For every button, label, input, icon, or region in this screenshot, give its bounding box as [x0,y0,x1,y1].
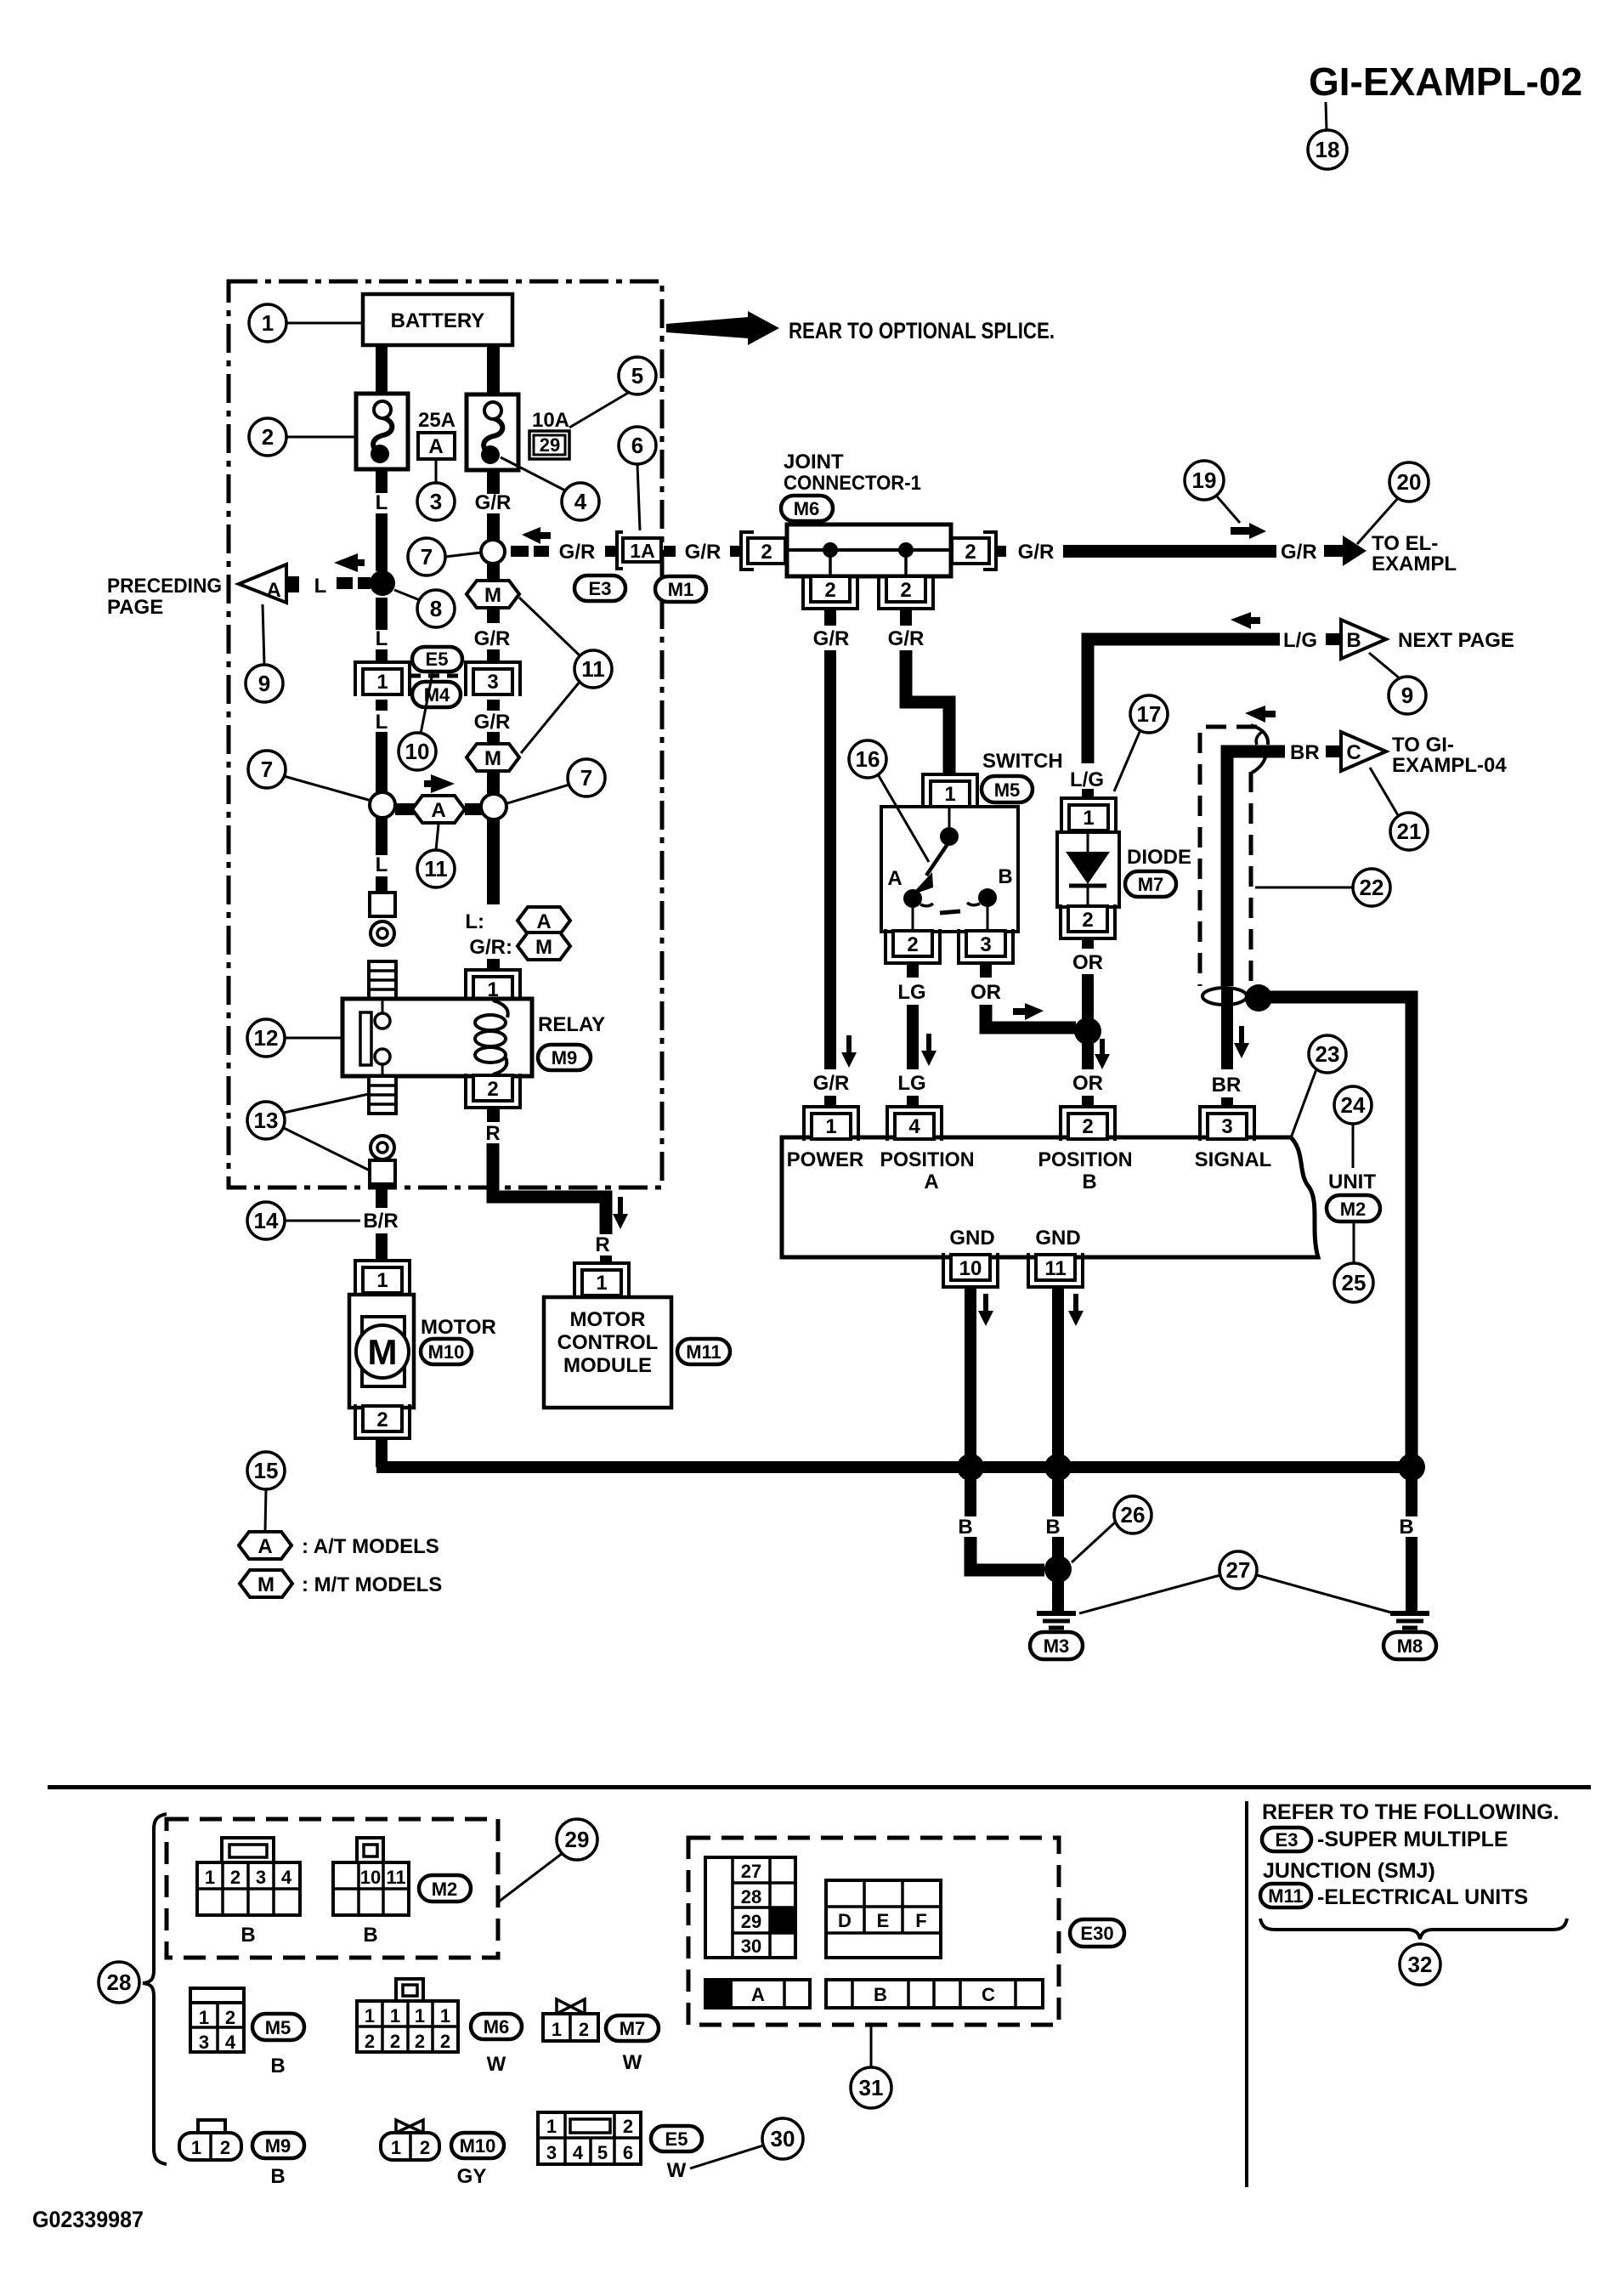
svg-text:27: 27 [1226,1557,1251,1583]
joint connector bottom pin 2 right [879,575,933,609]
svg-text:A: A [431,799,445,822]
callout line 22 [1255,887,1353,889]
E30 grid DEF [826,1880,941,1958]
wire BR to unit pin 3 [1221,1097,1233,1107]
bus node middle [1044,1454,1072,1481]
svg-text:4: 4 [574,489,587,514]
dashed group box M2 connectors [167,1819,498,1958]
wire G/R [487,564,500,583]
switch common post [948,808,951,830]
svg-text:1: 1 [440,2005,450,2026]
svg-text:EXAMPL: EXAMPL [1372,553,1457,575]
callout line 26 [1072,1522,1115,1562]
switch contact drop lines [912,908,914,932]
oval M5 [982,776,1033,802]
callout line 9 right [1369,653,1400,678]
separator rule [48,1785,1591,1789]
relay contact bar [360,1012,371,1065]
hexagon M legend [240,1570,292,1597]
relay contact points [382,1000,384,1014]
circled 20 [1389,462,1429,502]
svg-text:OR: OR [970,981,1001,1004]
svg-text:E30: E30 [1080,1923,1113,1944]
svg-text:5: 5 [597,2142,608,2163]
connector face M5 grid [190,2003,244,2052]
svg-text:E5: E5 [426,649,449,670]
dashed option box 22 right with hop [1249,772,1253,986]
circled 31 [851,2067,891,2108]
circled 16 [849,740,886,778]
circled 23 [1309,1035,1346,1073]
switch pin connector 2 [886,929,940,963]
svg-text:E: E [877,1910,890,1931]
svg-text:2: 2 [487,1078,498,1101]
circled 9 [246,665,283,702]
svg-text:B: B [958,1516,972,1539]
svg-text:JOINT: JOINT [784,451,844,473]
svg-text:25A: 25A [418,409,456,432]
connector face M7 grid [543,2014,598,2041]
splice dot ground [1044,1556,1072,1583]
wire B elbow to splice [970,1537,1044,1570]
callout line 12 [285,1037,342,1040]
svg-text:GND: GND [1035,1227,1080,1250]
svg-text:B: B [1346,629,1361,652]
oval M11 refer [1260,1884,1311,1907]
arrow left above BR wire [1245,706,1276,723]
svg-text:B: B [270,2165,285,2188]
circled 3 [417,483,455,520]
terminal box on L wire [370,893,395,916]
callout line 18 [1326,102,1327,130]
bottom bus wire [376,1461,1417,1473]
svg-text:G02339987: G02339987 [32,2207,144,2232]
wire B below pin 11 [1052,1287,1064,1467]
callout line 29 [499,1853,563,1902]
svg-text:A: A [257,1535,272,1558]
svg-text:CONTROL: CONTROL [557,1331,659,1354]
svg-text:1: 1 [365,2005,375,2026]
callout lines 11a [519,598,580,656]
oval M9 [538,1045,591,1070]
wire B/R [376,1233,388,1261]
oval M8 [1384,1632,1436,1659]
svg-text:-SUPER MULTIPLE: -SUPER MULTIPLE [1317,1828,1508,1851]
svg-text:10: 10 [405,739,430,764]
joint bus node left [823,542,838,558]
callout line 24 [1352,1124,1355,1168]
callout line 21 [1370,768,1398,815]
svg-text:20: 20 [1397,469,1422,495]
svg-text:NEXT PAGE: NEXT PAGE [1398,629,1514,652]
circled 28 [99,1962,139,2003]
svg-text:G/R: G/R [813,627,850,650]
joint connector pin 2 left [741,532,754,570]
svg-text:15: 15 [254,1458,279,1483]
wire G/R [487,608,500,623]
wire splice to right riser [1265,997,1412,1467]
arrow down on OR wire [1095,1039,1110,1069]
hexagon A (A/T models) [412,796,465,823]
fat arrow to EL-EXAMPL [1324,536,1367,566]
svg-text:M3: M3 [1044,1635,1070,1657]
svg-text:2: 2 [579,2019,589,2040]
callout line 6 [637,464,640,530]
wire G/R joint pin down left [824,607,836,626]
svg-text:2: 2 [907,933,918,956]
wire G/R to unit pin 1 [824,1096,836,1107]
callout line 5 [569,392,630,428]
connector 3 (E5/M4 inline) [466,662,520,696]
svg-text:3: 3 [199,2032,209,2053]
connector face M6 grid [357,2001,458,2052]
wire OR to unit pin 2 [1082,1096,1094,1107]
svg-text:BR: BR [1212,1074,1242,1097]
circled 5 [619,357,656,394]
svg-text:2: 2 [390,2031,400,2052]
oval E3 refer [1262,1828,1311,1851]
fuse box 29 [529,431,569,459]
wire L below fuse F1 [376,469,388,493]
svg-text:1: 1 [415,2005,425,2026]
oval M5 group [252,2014,304,2040]
svg-text:2: 2 [415,2031,425,2052]
svg-text:13: 13 [254,1108,279,1133]
terminal box lower [370,1160,395,1184]
svg-text:1A: 1A [630,540,654,562]
svg-text:5: 5 [631,363,643,388]
svg-text:A: A [536,910,551,933]
unit pin connector 1 [804,1107,858,1141]
svg-text:CONNECTOR-1: CONNECTOR-1 [784,472,921,495]
svg-text:G/R: G/R [1018,541,1055,564]
dash-dot harness boundary box [229,281,662,1188]
node circle 7 right [481,794,506,819]
svg-text:7: 7 [421,544,433,570]
wire R elbow to module [493,1143,606,1234]
svg-text:E3: E3 [1276,1829,1299,1851]
joint pin drop wires [829,550,832,576]
dashed group box E30 [688,1838,1059,2025]
connector face M2-B tab [357,1838,383,1862]
svg-text:G/R: G/R [474,711,511,734]
wire B/R [376,1184,388,1208]
circled 26 [1114,1496,1152,1533]
connector 1A (SMJ) [617,532,623,569]
wire G/R down to unit [824,650,836,1069]
oval M2 group [419,1875,471,1902]
svg-text:1: 1 [391,2137,401,2158]
callout line 17 [1114,732,1140,791]
oval M3 [1030,1632,1083,1659]
wire BR through splice [1221,989,1233,1010]
svg-text:B: B [270,2055,285,2077]
svg-text:TO GI-: TO GI- [1392,734,1454,757]
bus node left [957,1454,984,1481]
svg-text:1: 1 [825,1115,836,1138]
svg-text:C: C [982,1984,995,2005]
wire R below relay [487,1108,500,1122]
svg-text:M1: M1 [668,579,694,600]
callout line 2 [286,436,356,439]
svg-text:16: 16 [856,746,880,772]
callout line 16 [878,774,929,862]
circled 7 top [408,538,445,575]
oval M1 [655,576,706,602]
connector face M9 body [179,2133,241,2160]
svg-text:1: 1 [596,1272,607,1295]
wire LG to unit pin 4 [907,1096,919,1107]
svg-text:1: 1 [376,671,388,694]
circled 24 [1334,1086,1372,1124]
wire OR to junction [1082,974,1094,1022]
circled 8 [417,590,455,627]
callout line 8 [394,590,420,600]
node circle 7 left [370,792,395,818]
connector face M5 tab [190,1988,244,2003]
svg-text:2: 2 [623,2116,633,2137]
svg-text:G/R: G/R [474,627,511,650]
svg-text:PAGE: PAGE [107,596,163,619]
connector face M10 bowtie [396,2120,423,2133]
svg-text:B: B [874,1984,887,2005]
callout line 4 [501,457,565,490]
switch pin connector 3 [959,929,1013,963]
joint bus node right [898,542,914,558]
wire B to ground M8 [1406,1537,1417,1612]
circled 7 right [568,759,605,796]
motor pin connector 1 [355,1261,410,1295]
svg-text:2: 2 [365,2031,375,2052]
svg-text:G/R: G/R [888,627,925,650]
arrow left above L wire [334,553,365,572]
wire stub after triangle A [286,576,299,592]
svg-text:B: B [1082,1171,1096,1193]
svg-text:BATTERY: BATTERY [391,309,485,332]
underbrace 32 [1260,1919,1567,1939]
dashed option box 22 left [1198,733,1202,986]
triangle B next page [1341,620,1386,659]
svg-text:25: 25 [1342,1270,1367,1295]
callout line 30 [690,2145,763,2168]
callout line 23 [1292,1069,1316,1136]
wire OR below switch pin 3 [980,963,992,978]
oval M7 [1125,871,1176,897]
circled 11 lower [417,850,455,887]
switch contact A [903,889,922,908]
wire elbow to switch [906,650,949,774]
wire L [376,732,388,793]
wire stub hexagon to node [465,803,482,815]
wire G/R below node to legend [487,819,500,904]
svg-text:4: 4 [225,2032,236,2053]
svg-text:POSITION: POSITION [880,1148,975,1171]
svg-text:B: B [363,1924,377,1947]
svg-text:22: 22 [1360,875,1384,900]
svg-text:18: 18 [1316,137,1340,162]
wire LG down [907,1005,919,1069]
switch contact B [978,888,997,907]
oval M11 [677,1339,730,1364]
svg-text:3: 3 [980,933,991,956]
arrow down on BR wire [1234,1026,1249,1058]
wire OR below diode [1082,938,1094,949]
svg-text:30: 30 [771,2126,795,2151]
relay M9 box [342,999,532,1076]
svg-text:7: 7 [580,765,592,791]
svg-text:10: 10 [959,1257,982,1280]
triangle A preceding page [239,564,286,603]
svg-text:G/R: G/R [475,491,512,514]
wire B left drop [965,1477,976,1516]
switch middle dash [940,911,960,913]
svg-text:10A: 10A [532,409,569,432]
relay pin connector 1 [466,970,520,1004]
svg-text:LG: LG [897,1072,925,1095]
splice dot 26 area [1245,984,1272,1012]
hexagon M wire legend [518,932,570,960]
wire G/R [487,732,500,743]
arrow right above G/R dashes [522,527,551,544]
connector face M2-A grid [197,1862,300,1915]
svg-text:2: 2 [1082,1115,1093,1138]
svg-text:2: 2 [900,579,911,602]
switch lever with arrowhead [926,844,948,876]
svg-text:L: L [376,627,388,650]
svg-text:1: 1 [390,2005,400,2026]
circled 2 [249,418,286,456]
svg-text:OR: OR [1072,951,1103,974]
unit pin connector 3 [1200,1107,1254,1141]
callout line 15 [265,1489,266,1531]
circled 19 [1185,461,1224,500]
svg-text:D: D [838,1910,852,1931]
relay coil [493,1000,508,1017]
wire L/G horizontal from corner [1088,639,1280,763]
wire L [376,649,388,663]
svg-text:27: 27 [741,1861,761,1882]
unit gnd pin connector 10 [943,1253,998,1287]
svg-text:3: 3 [256,1867,266,1888]
arrow down on wire 10 [978,1294,993,1326]
wire G/R below hexagon [487,771,500,794]
diode M7 body [1057,832,1119,907]
svg-text:A: A [266,579,280,602]
wire L [376,876,388,893]
svg-text:3: 3 [487,671,498,694]
wire B middle drop [1052,1477,1064,1516]
E30 strip BC [826,1980,1043,2008]
svg-text:G/R: G/R [559,541,596,564]
svg-text:UNIT: UNIT [1328,1171,1376,1193]
svg-text:GI-EXAMPL-02: GI-EXAMPL-02 [1309,60,1582,104]
oval M6 [781,496,833,521]
arrow down on LG wire [921,1034,936,1066]
svg-text:11: 11 [581,656,605,682]
wire OR junction to unit [1082,1042,1094,1069]
svg-text:1: 1 [1083,807,1094,830]
svg-text:1: 1 [944,783,955,806]
wire battery right [487,343,500,395]
svg-text:M: M [257,1573,274,1596]
svg-text:DIODE: DIODE [1127,846,1191,869]
svg-text:1: 1 [262,310,274,336]
circled 18 [1308,130,1347,169]
svg-text:G/R: G/R [813,1072,850,1095]
ring terminal [371,921,394,945]
svg-text:7: 7 [261,757,273,782]
circled 32 [1400,1944,1440,1985]
callout line 10 [421,673,433,734]
svg-text:3: 3 [546,2142,557,2163]
node circle 7 top [481,540,505,564]
callout lines 27 [1079,1575,1220,1613]
circled 22 [1353,869,1390,906]
svg-text:M: M [484,747,501,770]
wire stub [605,546,617,557]
arrow down on G/R wire [841,1035,857,1068]
wire G/R long run right [1063,545,1276,558]
svg-text:M: M [535,936,552,959]
svg-text:28: 28 [107,1970,132,1995]
svg-text:2: 2 [965,541,976,564]
svg-text:M2: M2 [432,1879,458,1900]
svg-text:B: B [240,1924,255,1947]
callout line 20 [1357,498,1398,544]
svg-text:REFER TO THE FOLLOWING.: REFER TO THE FOLLOWING. [1262,1800,1559,1824]
svg-text:: A/T MODELS: : A/T MODELS [302,1535,439,1558]
brace for 28 [143,1814,167,2164]
svg-text:POSITION: POSITION [1038,1148,1133,1171]
wire L below connector 1 [376,700,388,711]
svg-text:4: 4 [573,2142,584,2163]
svg-text:8: 8 [430,596,442,621]
module pin connector 1 [574,1263,629,1297]
svg-text:23: 23 [1316,1041,1340,1067]
switch S1 box [881,807,1018,932]
wire G/R [487,513,500,541]
wire BR horizontal [1227,751,1285,986]
svg-text:M10: M10 [428,1341,465,1363]
svg-text:4: 4 [908,1115,920,1138]
svg-text:32: 32 [1408,1952,1433,1977]
svg-text:11: 11 [424,856,448,881]
wire LG joint pin down right with elbow [900,607,912,626]
svg-text:F: F [915,1910,926,1931]
wire G/R below fuse F2 [487,470,500,494]
oval M7 group [606,2015,659,2041]
svg-text:C: C [1346,741,1361,764]
ring terminal lower [371,1136,394,1159]
svg-text:L/G: L/G [1283,629,1317,652]
svg-text:M11: M11 [686,1341,721,1363]
svg-text:M2: M2 [1340,1199,1367,1220]
svg-text:11: 11 [1044,1257,1066,1280]
svg-text:29: 29 [540,434,560,456]
bus node right [1398,1454,1425,1481]
wire R to module [600,1256,612,1264]
wire B to splice dot [1052,1537,1064,1559]
oval E30 [1070,1919,1124,1947]
circled 6 [619,427,656,464]
callout line 14 [285,1220,360,1222]
svg-text:2: 2 [761,541,772,564]
oval M6 group [471,2014,522,2039]
triangle C to GI-EXAMPL-04 [1341,732,1386,771]
hexagon A legend [239,1532,291,1559]
circled 30 [762,2118,803,2159]
hexagon A wire legend [518,907,570,934]
